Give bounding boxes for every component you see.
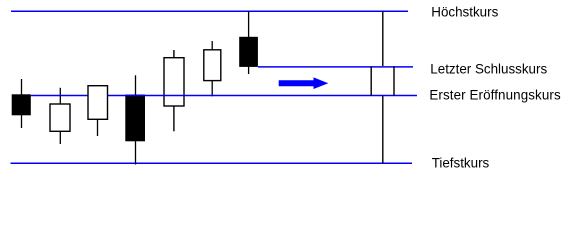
candle 1 (12, 79, 31, 128)
arrow (279, 77, 329, 89)
svg-text:Tiefstkurs: Tiefstkurs (432, 155, 490, 170)
candle 2 (50, 88, 70, 144)
svg-text:Höchstkurs: Höchstkurs (431, 5, 498, 20)
candle 7 (239, 11, 258, 74)
summary candle body sides (371, 66, 394, 96)
line Höchstkurs (11, 10, 408, 12)
line Erster Eröffnungskurs (31, 95, 417, 97)
line Tiefstkurs (11, 162, 413, 164)
svg-text:Letzter Schlusskurs: Letzter Schlusskurs (430, 61, 547, 76)
summary candle body fill (371, 66, 395, 96)
line Letzter Schlusskurs through box (371, 66, 395, 68)
candle 6 (204, 41, 221, 96)
candle 5 (164, 50, 184, 131)
line Letzter Schlusskurs (258, 66, 413, 68)
candle 3 (88, 86, 108, 136)
summary candle wick (382, 11, 384, 163)
candle 4 (125, 75, 145, 164)
svg-text:Erster Eröffnungskurs: Erster Eröffnungskurs (429, 87, 561, 102)
